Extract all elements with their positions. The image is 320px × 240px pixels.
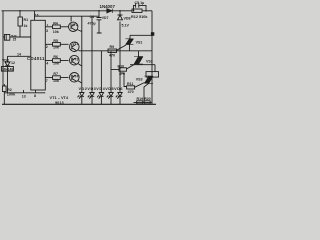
svg-text:R4: R4 [53,21,58,25]
IC pin16 stub [34,11,36,20]
gate row 3: pin stub [45,60,52,62]
IC U1 CD4011 [31,20,46,90]
resistor R7 [53,76,61,80]
svg-text:470: 470 [128,90,134,94]
LED VD3 [88,93,94,105]
VS2 MT2 wire [138,51,140,57]
svg-text:R2: R2 [7,88,12,92]
collector rail y16 [35,15,100,17]
svg-text:VD8: VD8 [124,17,131,21]
triac VS3 [145,76,154,83]
zener VD8 [119,11,121,15]
resistor R4 [53,25,61,29]
resistor R2 [3,84,4,86]
capacitor C4 [97,18,102,20]
svg-text:14: 14 [17,52,21,56]
transistor VT3 [70,55,80,65]
junction square [151,32,154,36]
gate row 1: pin stub [45,26,52,28]
svg-text:VS1: VS1 [136,40,143,44]
svg-text:R5: R5 [53,39,58,43]
wire top rail right of R12 [142,10,152,12]
resistor R9 [108,49,117,53]
svg-text:R9: R9 [110,45,115,49]
capacitor C4 stub [98,11,100,18]
svg-text:16: 16 [35,14,39,18]
VS1 gate wire [117,45,127,50]
svg-text:VD2: VD2 [2,58,9,62]
resistor R11 [127,86,135,89]
svg-text:R7: R7 [53,72,58,76]
svg-text:2: 2 [46,45,48,49]
svg-text:13: 13 [22,94,26,98]
svg-text:1N4148: 1N4148 [2,67,13,71]
emitter row wire VS1 feed [79,49,153,52]
resistor R12 [132,9,142,12]
svg-text:10k: 10k [53,30,59,34]
svg-text:VD7: VD7 [102,16,109,20]
VS3 gate wire [135,83,145,88]
LED VD6 [116,93,122,105]
svg-text:CD4011: CD4011 [27,56,45,61]
bottom rail [2,103,156,105]
IC bottom pin stubs [24,90,36,93]
LED VD2 [78,93,84,105]
VT4 emitter diagonal [78,81,82,83]
load box [146,72,159,78]
wire mic to IC [10,36,31,38]
triac VS1 [126,39,134,45]
svg-text:3: 3 [46,29,48,33]
VT1 emitter diagonal [77,30,82,32]
resistor R6 [53,59,61,63]
svg-text:12: 12 [11,61,15,65]
svg-text:10k: 10k [53,62,59,66]
svg-text:1N4007: 1N4007 [100,4,116,9]
svg-text:VT1: VT1 [72,23,78,27]
gate row 4: pin stub [45,77,52,79]
wire top rail [2,10,133,12]
VS1 MT1 wire [129,45,131,51]
svg-text:C4: C4 [90,15,95,19]
svg-text:9013: 9013 [55,100,64,105]
gate row 2: pin stub [45,43,52,45]
svg-text:VT4: VT4 [72,75,78,79]
svg-text:5.1V: 5.1V [122,23,130,27]
svg-text:R11: R11 [127,82,133,86]
transistor VT2 [70,42,80,52]
svg-text:10k: 10k [53,46,59,50]
svg-text:VT2: VT2 [72,42,78,46]
svg-text:470µ: 470µ [88,22,96,26]
svg-text:C5 1µ: C5 1µ [135,1,145,5]
bus x120 [119,22,121,93]
svg-text:R1: R1 [24,18,29,22]
wire to VS1 top [130,35,152,39]
wire right rail [151,11,153,105]
bus x92 [91,16,93,92]
svg-text:R12 510k: R12 510k [131,15,148,19]
microphone BM [4,35,9,41]
svg-text:R6: R6 [53,55,58,59]
diode VD1 [7,56,9,62]
bus x111 [110,51,112,93]
svg-text:10k: 10k [53,79,59,83]
1N4148 label box [1,67,13,72]
LED VD4 [97,93,103,105]
wire R19 R20 row [134,101,153,103]
VT3 emitter diagonal [78,64,82,66]
svg-text:1k: 1k [24,24,28,28]
resistor R5 [53,43,61,47]
LED VD5 [107,93,113,105]
capacitor C5 [134,3,147,11]
triac VS2 [134,57,143,65]
svg-text:7: 7 [46,79,48,83]
svg-text:VD2VD3VD4VD5VD6: VD2VD3VD4VD5VD6 [79,87,123,91]
transistor VT4 [70,73,80,83]
bus x81.8 [81,16,83,92]
resistor R10 [119,68,127,71]
wire IC left input row [8,55,31,57]
wire left rail [2,11,4,86]
svg-text:4: 4 [46,61,48,65]
svg-text:15: 15 [13,37,17,41]
VS2 gate wire [127,64,135,69]
VS2 MT1 wire / row wire [130,63,155,66]
svg-text:470: 470 [109,53,115,57]
resistor R1 [19,11,21,17]
svg-text:R10: R10 [118,64,125,68]
junction dots [119,10,121,12]
svg-text:8: 8 [34,94,36,98]
VS3 MT1 wire [144,83,149,102]
wire IC bottom row [4,92,45,94]
transistor VT1 [69,22,78,31]
svg-text:VS3: VS3 [136,78,143,82]
svg-text:VT3: VT3 [72,57,78,61]
svg-text:VS2: VS2 [146,59,153,63]
VT1 collector stub [70,16,72,21]
bus x101.4 [100,51,102,93]
